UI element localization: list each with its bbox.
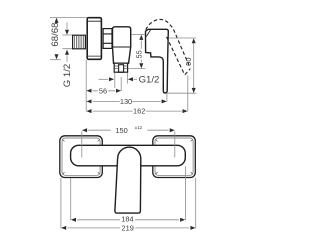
dimension 219 [61,224,195,233]
150 extension lines into connection centres [81,131,83,157]
svg-text:219: 219 [122,224,134,233]
dimension G1/2 (outlet) [99,73,160,88]
right escutcheon (front) [153,136,196,178]
outlet centre line [120,77,122,91]
svg-text:56: 56 [99,86,107,95]
left extension line (wall face) [85,60,87,111]
dimension 184 [71,215,185,224]
svg-text:68/68: 68/68 [50,23,61,47]
escutcheon (side view) [87,18,101,60]
extension lines below [60,178,62,228]
dimension 150 +-12 [82,125,175,135]
mixer body (side view) [113,27,131,63]
dimension G 1/2 (inlet) [62,23,73,88]
dimension 56 [86,86,121,95]
dimension 130 [86,97,166,106]
handle lever (side view, solid) [146,29,169,93]
extension line handle tip open [187,76,189,112]
svg-text:90: 90 [184,57,193,65]
union nut [103,29,112,49]
dimension 68/68 [50,18,61,60]
svg-text:55: 55 [135,50,144,58]
dimension 55 [128,35,145,69]
svg-text:150: 150 [115,126,127,135]
extension line handle front [166,94,168,102]
svg-text:G 1/2: G 1/2 [62,64,73,87]
bottom outlet G1/2 (side view) [114,63,127,72]
handle paddle (front) [115,147,141,213]
inlet edge extension lines [62,35,72,49]
svg-text:184: 184 [121,215,133,224]
svg-text:G1/2: G1/2 [139,75,160,86]
svg-text:130: 130 [120,97,132,106]
dimension 162 [86,107,187,116]
dimension 90 [167,38,196,93]
handle raised position (dashed) [146,19,191,74]
threaded wall inlet [73,35,86,49]
extension line escutcheon top (68/68 top ref) [50,17,88,19]
svg-text:±12: ±12 [135,125,143,130]
left escutcheon (front) [60,136,103,178]
68/68 bottom ref line [50,59,61,61]
body bar (front) [71,145,186,166]
svg-text:162: 162 [133,107,145,116]
